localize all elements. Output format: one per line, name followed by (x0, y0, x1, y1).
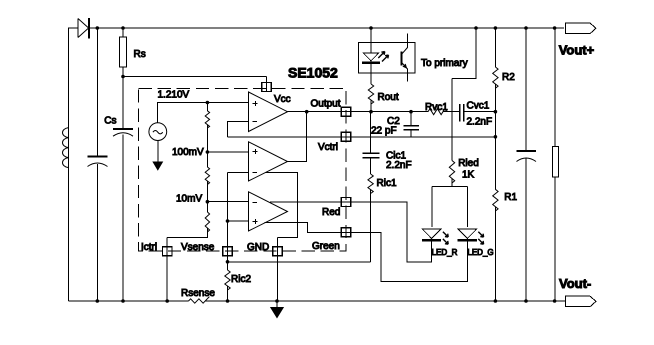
svg-text:Cs: Cs (104, 116, 116, 127)
junction top rail / input cap (96, 26, 100, 30)
LED_G (458, 229, 477, 238)
resistor Rvc1 (428, 109, 447, 115)
svg-text:SE1052: SE1052 (288, 65, 338, 81)
capacitor C-in plate (88, 156, 108, 158)
svg-text:Rvc1: Rvc1 (425, 102, 448, 113)
pin Ictrl (163, 247, 173, 256)
resistor Ric2 (225, 270, 230, 290)
svg-text:Rout: Rout (378, 92, 399, 103)
junction Output wire / R2-R1 column (494, 110, 498, 114)
svg-text:Vout+: Vout+ (559, 42, 595, 57)
optocoupler box (359, 43, 416, 74)
resistor Rout (368, 84, 373, 104)
pin Vctrl (341, 132, 351, 141)
wire Vsense to Ric1 (228, 261, 371, 263)
svg-text:Rsense: Rsense (181, 288, 215, 299)
junction top rail / Rs-Cs column (121, 26, 125, 30)
svg-text:1.210V: 1.210V (158, 90, 190, 101)
node Vsense branch (226, 260, 230, 264)
junction Output wire / C2 (409, 110, 413, 114)
junction bottom rail / input cap (96, 299, 100, 303)
resistor R2 (493, 67, 498, 88)
optocoupler phototransistor (401, 52, 403, 66)
op-amp U1A (249, 92, 288, 132)
optocoupler LED (364, 53, 379, 61)
wire Green path (264, 223, 467, 282)
junction bottom rail / R1 (494, 299, 498, 303)
wire Vsense column (227, 172, 229, 301)
pin Red (341, 198, 351, 207)
resistor Rled (449, 161, 454, 184)
ground (276, 301, 278, 309)
node 100mV (206, 150, 210, 154)
junction Vctrl wire / R2-R1 column (494, 135, 498, 139)
svg-text:22 pF: 22 pF (371, 126, 397, 137)
voltage source 1.210V (158, 103, 249, 123)
svg-text:LED_R: LED_R (432, 248, 458, 257)
terminal Vout+ (565, 23, 596, 34)
resistor chain Rb (205, 167, 209, 185)
junction Rs bottom / Vcc feed (121, 75, 125, 79)
capacitor Cvc1 (460, 104, 464, 122)
svg-text:To primary: To primary (421, 58, 468, 69)
resistor Rs (120, 37, 127, 67)
wire Cic1/Ric1 column (370, 112, 372, 262)
node 1.210V (206, 101, 210, 105)
wire Red row (270, 202, 432, 262)
capacitor Cout curved plate (517, 158, 537, 162)
svg-text:Ric2: Ric2 (231, 274, 251, 285)
pin Vsense (223, 247, 233, 256)
pin GND (273, 247, 283, 256)
wire reference chain (167, 103, 207, 302)
wire op1 inverting input / Vctrl (228, 122, 496, 137)
junction bottom rail / output cap (524, 299, 528, 303)
wire op3 noninverting input (228, 220, 249, 222)
wire op1-out to op2-out tie (288, 112, 307, 162)
svg-text:2.2nF: 2.2nF (467, 116, 493, 127)
wire Rs/Cs column (122, 28, 124, 301)
wire R2/R1 column (494, 28, 496, 301)
IC SE1052 dashed box (139, 89, 347, 252)
junction bottom rail / Cs column (121, 299, 125, 303)
wire Vcc feed (123, 77, 267, 93)
load resistor box (553, 147, 559, 178)
svg-text:Vcc: Vcc (274, 94, 291, 105)
junction top rail / output cap (524, 26, 528, 30)
svg-text:R1: R1 (504, 192, 517, 203)
svg-text:Red: Red (322, 207, 340, 218)
resistor chain Rc (205, 212, 209, 232)
svg-text:LED_G: LED_G (467, 248, 493, 257)
svg-text:Rled: Rled (458, 158, 479, 169)
junction top rail / opto LED feed (369, 26, 373, 30)
svg-text:Vctrl: Vctrl (318, 142, 338, 153)
wire load column (554, 28, 556, 301)
capacitor Cs plate (113, 128, 133, 130)
junction top rail / R2 (494, 26, 498, 30)
junction bottom rail / load (553, 299, 557, 303)
capacitor C2 (410, 112, 412, 137)
junction op1 output / op2 output tie (305, 110, 309, 114)
capacitor Cout plate (517, 150, 537, 152)
wire opto LED column (370, 28, 372, 112)
wire top rail and left vertical (69, 28, 565, 301)
svg-text:Vout-: Vout- (559, 276, 591, 291)
svg-text:Green: Green (312, 241, 340, 252)
resistor Rsense (189, 297, 210, 304)
resistor chain Ra (205, 111, 209, 128)
capacitor Cs curved plate (113, 133, 133, 137)
svg-text:R2: R2 (502, 72, 515, 83)
node 10mV wire (207, 201, 248, 203)
wire op2 inverting input (228, 171, 249, 173)
svg-text:Vsense: Vsense (181, 242, 215, 253)
pin Output (341, 107, 351, 116)
wire output cap column (525, 28, 527, 301)
resistor Ric1 (368, 174, 373, 193)
svg-text:2.2nF: 2.2nF (386, 160, 412, 171)
pin Vcc (262, 83, 272, 92)
svg-text:100mV: 100mV (172, 147, 204, 158)
op-amp U1C (249, 192, 288, 231)
junction top rail / Rled feed (474, 26, 478, 30)
wire op1 output row (288, 111, 496, 113)
wire bottom rail (69, 300, 566, 302)
svg-text:1K: 1K (462, 170, 475, 181)
svg-text:Ictrl: Ictrl (141, 242, 157, 253)
svg-text:GND: GND (247, 242, 269, 253)
svg-text:Cvc1: Cvc1 (467, 101, 490, 112)
node 100mV wire (207, 151, 248, 153)
pin Green (341, 228, 351, 237)
inductor secondary winding (63, 128, 69, 168)
wire op2 ground stub to GND (266, 172, 298, 301)
junction bottom rail / Ric2 (226, 299, 230, 303)
junction Vsense column / op3 input (226, 219, 230, 223)
junction bottom rail / Ictrl (165, 299, 169, 303)
op-amp U1B (249, 142, 288, 181)
capacitor Cic1 (363, 153, 380, 158)
node 10mV (206, 200, 210, 204)
wire Rled feed (432, 28, 476, 227)
junction Output wire / Rout (369, 110, 373, 114)
svg-text:10mV: 10mV (176, 194, 202, 205)
optocoupler emission arrows (378, 52, 385, 59)
junction bottom rail / GND (275, 299, 279, 303)
junction top rail / load (553, 26, 557, 30)
diode D1 (77, 19, 79, 38)
wire input cap column (96, 28, 98, 301)
LED_R (422, 229, 441, 238)
terminal Vout- (565, 296, 596, 307)
capacitor C-in curved plate (88, 163, 108, 167)
svg-text:Ric1: Ric1 (377, 178, 397, 189)
svg-text:Rs: Rs (134, 49, 146, 60)
svg-text:Output: Output (311, 99, 341, 110)
resistor R1 (493, 189, 498, 211)
